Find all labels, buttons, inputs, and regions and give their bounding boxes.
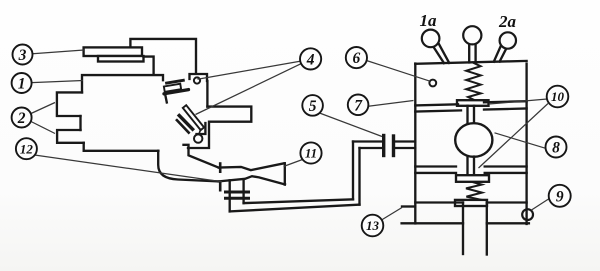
pipe: vertical riser outer wall [352,142,354,200]
block housing right edge [525,64,527,224]
pivot: upper breaker pivot circle [194,77,200,83]
svg-text:2a: 2a [498,12,517,31]
knob: top right circle (2a) [500,32,516,48]
wire: venturi tap right wall [242,180,244,204]
contact K2 (upper breaker outlined bar) [164,84,181,92]
svg-text:7: 7 [354,97,363,114]
coupling plate A [382,136,385,156]
coupling plate B [392,136,395,156]
partition A right lines [484,101,527,109]
channel stub top line [402,205,415,207]
venturi V1 left flange upper tick [219,164,222,172]
svg-text:10: 10 [551,89,565,104]
contact K3 (lower breaker outlined bar) [183,105,204,130]
callout circle 5 [302,95,323,116]
venturi V1 bottom profile [219,176,285,184]
bracket: upper breaker mount [190,74,208,81]
block housing top edge [415,61,526,64]
tooth T2 (lower left tooth, item 2) [57,130,84,143]
plate P1 (item 3 top plate) [84,47,142,56]
wire: duct inner wall [184,145,219,168]
ball B1 (diaphragm ball, item 8) [455,123,492,157]
channel bottom left line [402,222,463,224]
tooth T1 (upper left tooth, item 2) [57,92,82,116]
svg-text:8: 8 [552,140,560,157]
stem: top middle plunger [469,44,475,62]
contact K4 (lower breaker solid bar A) [179,116,192,130]
stem: top right plunger (2a) [494,46,506,61]
bracket: lower breaker mount [197,123,206,134]
contact K1 (upper breaker solid bar) [167,80,184,83]
leader 7 [368,101,413,107]
pipe: to capacitor top line [353,140,382,142]
leader 6 [367,61,430,82]
leader 3 [33,50,85,54]
svg-text:1: 1 [18,76,26,93]
callout circles [12,45,571,237]
leader 11 [284,160,303,167]
pivot: lower breaker pivot circle [194,134,202,142]
svg-text:9: 9 [556,188,564,205]
contact K5 (lower breaker solid bar B) [177,120,189,132]
svg-text:3: 3 [18,47,27,64]
stem: top left plunger (1a) [433,44,449,64]
wire: venturi tap left wall [229,180,231,211]
wire: duct outer wall curving to venturi [158,151,219,182]
callout circle 11 [300,142,321,163]
callout circle 9 [549,185,571,207]
svg-text:5: 5 [309,98,317,115]
leader 2 lower [31,122,55,134]
svg-text:11: 11 [305,146,317,161]
wire: body lower-left edge and bottom [84,143,159,151]
leader 13 [382,208,403,221]
partition B right lines [485,167,527,173]
pipe: bottom horizontal bottom line [230,205,360,212]
callout circle 2 [12,108,32,128]
pipe: to capacitor bottom line [360,147,383,149]
leader 10 lower [479,104,549,169]
union bar 1 [226,191,249,194]
wire: body right edge above arm [206,81,208,107]
spring S1 (upper spring) [466,62,481,99]
callout circle 4 [300,48,321,69]
leader 8 [495,133,546,149]
callout circle 10 [547,86,569,108]
plate P2 (second plate) [98,56,144,62]
strip: upper breaker leaf bar [164,90,189,94]
plate D2 (lower valve plate) [456,175,489,182]
wire: distributor body top outline [130,39,196,74]
callout circle 1 [12,73,32,93]
arm: right extension arm [188,107,251,148]
svg-text:12: 12 [20,141,34,156]
knob: top middle circle [463,26,481,44]
hole H1 (vent hole, item 6) [429,80,436,87]
venturi V1 right flange [284,163,286,184]
leader 4 upper [198,61,301,79]
callout circle 6 [346,47,367,68]
hole H2 (outlet hole, item 9) [522,209,533,220]
spring S2 (lower spring) [466,182,482,201]
stem: lower valve stem [468,157,475,176]
callout digits [17,47,565,233]
svg-text:6: 6 [353,50,361,67]
pipe: coupling to block bottom line [395,147,415,149]
wire: body shoulder line [82,75,163,92]
wire: body step right of plates [144,57,154,74]
plate D1 (upper valve plate) [457,100,489,106]
venturi V1 left flange lower tick [219,182,222,190]
pipe: vertical riser inner wall [358,148,360,205]
pipe: outlet down right wall [486,203,488,255]
union bar 2 [226,197,249,200]
callout circle 7 [348,95,369,116]
callout circle 13 [362,215,384,237]
callout circle 8 [546,137,567,158]
leader 9 [532,199,550,211]
leader 12 [35,155,223,182]
block housing left edge [414,64,416,224]
plate D3 (bottom plate) [455,200,487,206]
leader 5 [320,113,383,137]
pipe: coupling to block top line [395,140,415,142]
channel top left line [415,201,463,203]
wire: recess between teeth [79,116,81,130]
leader lines [31,50,549,220]
leader 2 upper [31,103,55,114]
svg-text:2: 2 [17,110,26,127]
stem: upper valve stem [468,106,475,124]
callout circle 3 [13,45,33,65]
svg-text:1a: 1a [420,11,438,30]
svg-text:13: 13 [366,218,380,233]
pipe: outlet down left wall [462,203,464,255]
partition A left lines [415,104,461,111]
wire: lower breaker stub [199,129,201,134]
leader 4 lower [196,64,302,115]
svg-text:4: 4 [306,51,315,68]
callout circle 12 [16,138,37,159]
pipe: bottom horizontal top line [244,199,353,203]
channel bottom right line [487,222,529,224]
leader 1 [32,81,83,83]
venturi V1 top profile [219,163,284,170]
wire: breaker left support stub [165,95,167,103]
channel top right line [487,201,527,203]
knob: top left circle (1a) [422,30,440,48]
partition B left lines [415,167,456,173]
leader 10 upper [489,99,547,104]
